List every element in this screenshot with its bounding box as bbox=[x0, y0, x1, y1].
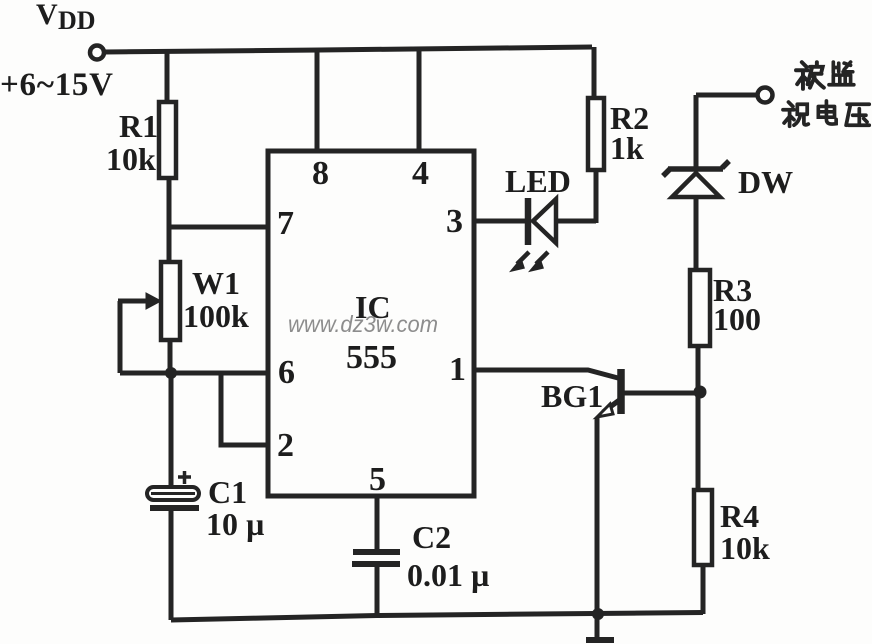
svg-text:10k: 10k bbox=[106, 141, 156, 177]
svg-text:555: 555 bbox=[346, 339, 397, 376]
svg-text:2: 2 bbox=[277, 427, 294, 464]
svg-text:1k: 1k bbox=[610, 130, 644, 166]
svg-text:R1: R1 bbox=[119, 108, 158, 144]
svg-text:8: 8 bbox=[312, 155, 329, 192]
svg-text:4: 4 bbox=[412, 155, 429, 192]
svg-text:LED: LED bbox=[505, 163, 571, 199]
svg-text:3: 3 bbox=[446, 203, 463, 240]
svg-text:R4: R4 bbox=[720, 498, 759, 534]
svg-text:100: 100 bbox=[713, 301, 761, 337]
svg-text:C1: C1 bbox=[208, 474, 247, 510]
svg-text:+6~15V: +6~15V bbox=[0, 67, 113, 103]
svg-text:0.01 µ: 0.01 µ bbox=[407, 557, 489, 593]
svg-text:10 µ: 10 µ bbox=[206, 506, 264, 542]
svg-text:6: 6 bbox=[278, 354, 295, 391]
svg-text:DW: DW bbox=[738, 164, 793, 200]
svg-text:V: V bbox=[36, 0, 58, 31]
svg-text:W1: W1 bbox=[192, 265, 240, 301]
svg-text:10k: 10k bbox=[720, 530, 770, 566]
svg-text:BG1: BG1 bbox=[541, 378, 603, 414]
svg-text:C2: C2 bbox=[412, 519, 451, 555]
svg-text:5: 5 bbox=[369, 461, 386, 498]
svg-text:1: 1 bbox=[449, 351, 466, 388]
svg-text:DD: DD bbox=[58, 6, 96, 35]
svg-text:www.dz3w.com: www.dz3w.com bbox=[288, 311, 438, 337]
svg-text:7: 7 bbox=[277, 205, 294, 242]
svg-text:100k: 100k bbox=[183, 298, 249, 334]
